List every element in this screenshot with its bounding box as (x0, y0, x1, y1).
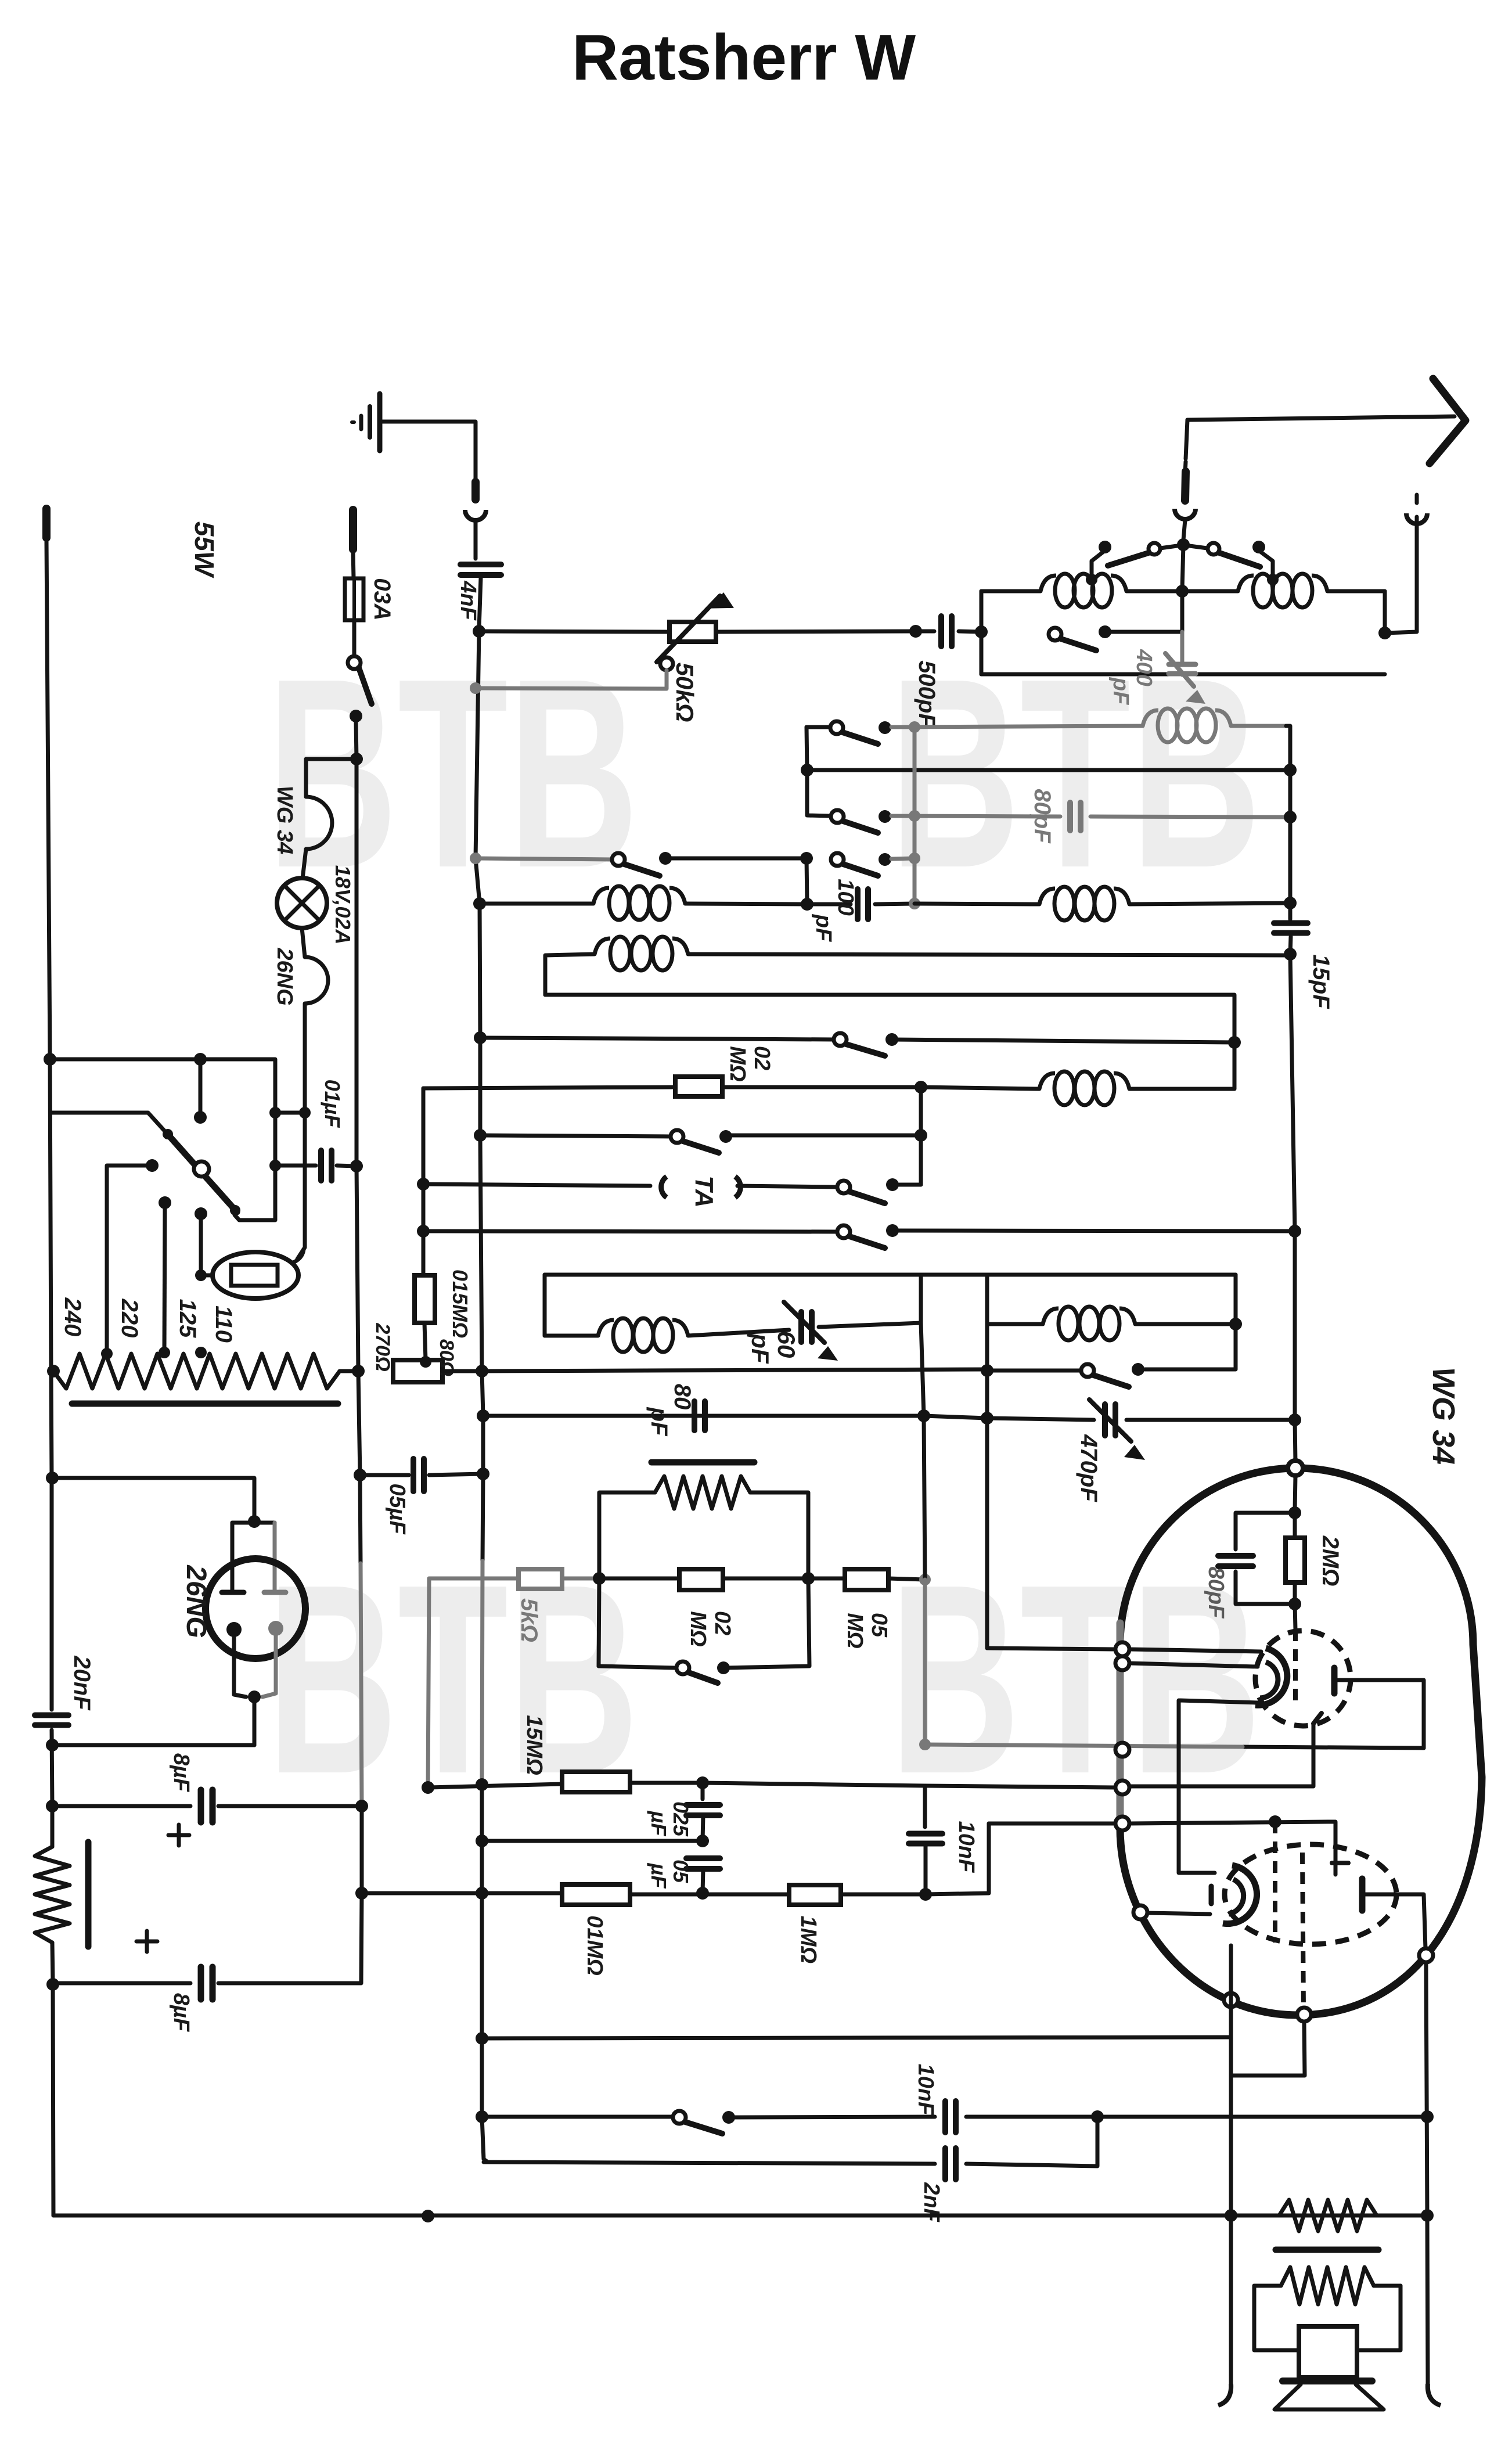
row y1790 left (480, 1038, 834, 1040)
column x2119 lower (1229, 2215, 1233, 2384)
junction bus y3170 (476, 1835, 488, 1847)
wire x1210 lower (703, 1869, 703, 1893)
svg-text:240: 240 (60, 1297, 85, 1337)
bus lower segment (482, 1782, 488, 2162)
junction x1593 y2720 (919, 1574, 931, 1585)
row y1478 gray left (476, 858, 612, 859)
26NG right plate gray (264, 1590, 286, 1595)
wire 0.5uF to bus (429, 1474, 483, 1475)
upper system dashed circle (1255, 1631, 1351, 1726)
band switch left contact (1149, 543, 1160, 555)
row y2361 long (482, 1369, 987, 1371)
svg-text:WG 34: WG 34 (1426, 1367, 1461, 1465)
svg-text:05: 05 (867, 1613, 891, 1638)
wire y2120 right (892, 1231, 1295, 1231)
svg-text:55W: 55W (189, 521, 219, 578)
resistor 0.5M (845, 1569, 888, 1590)
box bottom wire (981, 672, 1385, 677)
capacitor 470pF (1102, 1404, 1108, 1436)
switch box bottom (599, 1666, 676, 1668)
junction grid y2762 (1288, 1598, 1301, 1610)
antenna2 hook (1406, 513, 1427, 524)
row y3140 inside (1129, 1822, 1329, 1823)
junction 26NG top (248, 1515, 261, 1528)
capacitor 8uF lower (198, 1967, 204, 1999)
gray column x1575 (913, 727, 917, 902)
wire 2M bottom (1293, 1582, 1297, 1604)
svg-text:18V,02A: 18V,02A (331, 865, 355, 945)
row y1252 switch (807, 725, 830, 729)
antenna plug pin (471, 482, 480, 499)
wire y1643 right (688, 954, 1290, 955)
wire coil y2280 left (987, 1322, 1043, 1326)
row y2195 (545, 1273, 1236, 1277)
rail left bottom (53, 1983, 53, 2215)
wire 0.1M to 1M (630, 1893, 789, 1897)
arrow 400pF (1165, 653, 1194, 686)
junction x620 y2540 (354, 1469, 366, 1481)
tube top cap pin (1288, 1461, 1303, 1476)
capacitor 80pF tube (1218, 1553, 1253, 1559)
gray row y1405 right (1090, 817, 1290, 817)
output transformer primary (1231, 2214, 1279, 2218)
mains switch (348, 656, 361, 669)
detector zigzag (655, 1476, 750, 1509)
wire 100pF to x1575 (875, 904, 915, 904)
switch y3645 (673, 2111, 686, 2124)
wire 26NG to y3005 (253, 1697, 257, 1745)
antenna pin (1185, 462, 1186, 473)
junction coil left top (1086, 574, 1097, 585)
svg-text:01MΩ: 01MΩ (582, 1915, 607, 1976)
gray 400pF lead (1180, 632, 1185, 662)
gray column x620 (360, 1475, 361, 1563)
wire coil to 60pF (688, 1330, 789, 1336)
column x938 (543, 1275, 547, 1336)
gray coil y1250 (1143, 710, 1158, 726)
column x2230 (1295, 1231, 1295, 1462)
speaker bar (1283, 2378, 1372, 2384)
wire 2M top (1293, 1513, 1297, 1538)
resistor 15M (562, 1772, 630, 1792)
junction grid y2605 (1288, 1506, 1301, 1519)
envelope pin y2864 (1115, 1656, 1129, 1670)
arrow 60pF (784, 1302, 825, 1343)
26NG left prong (231, 1523, 235, 1590)
wire y1556 mid (685, 904, 807, 904)
gray junction x1593 y3004 (919, 1739, 931, 1750)
junction center coils (1176, 585, 1189, 598)
junction bus y3510 (476, 2032, 488, 2045)
wire x938 to coil (545, 1334, 598, 1338)
selector post left (146, 1159, 159, 1172)
wire post to x2035 (1105, 630, 1182, 634)
svg-text:µF: µF (647, 1811, 671, 1837)
row y1643 coil (595, 938, 610, 954)
gray column x1593 (923, 1580, 927, 1745)
column x729 (422, 1088, 426, 1275)
switch in box y1088 (1049, 628, 1061, 641)
switch y1790 (834, 1033, 847, 1046)
wire y3645 right (966, 2115, 1427, 2119)
junction x623 y3110 (355, 1800, 368, 1812)
svg-text:pF: pF (747, 1333, 774, 1364)
bottom rail (53, 2214, 1427, 2218)
wire center down (1182, 545, 1183, 590)
capacitor 100pF (855, 889, 861, 919)
wire 8uF to x623 (218, 1804, 362, 1808)
junction x2458 y3645 (1421, 2110, 1434, 2123)
junction coil right top (1267, 574, 1279, 585)
row y1713 (545, 995, 1234, 1042)
wire 470pF to bus (1126, 1418, 1295, 1422)
column x1700 (985, 1275, 989, 1648)
wire coil right to corner (1327, 591, 1385, 631)
junction rail y2361 (47, 1365, 60, 1377)
svg-text:025: 025 (669, 1801, 693, 1837)
column x614 (357, 759, 358, 1371)
row y2445 (481, 1472, 485, 1476)
svg-text:05: 05 (669, 1859, 693, 1883)
wire 0.5M to x1593 (888, 1578, 925, 1580)
26NG cathode left (226, 1622, 242, 1637)
envelope pin y2840 (1115, 1642, 1129, 1656)
svg-text:10nF: 10nF (913, 2064, 938, 2116)
grid lead to system (1295, 1604, 1295, 1630)
coil y2280 (1043, 1308, 1059, 1324)
wire y1643 left corner (545, 954, 595, 995)
plus sign lower (136, 1940, 157, 1944)
junction x2222 y1326 (1284, 764, 1297, 776)
junction x2230 y2120 (1288, 1225, 1301, 1238)
svg-text:BTB: BTB (267, 622, 639, 924)
junction bus y1087 (473, 625, 485, 638)
junction rail y1824 (44, 1053, 56, 1066)
26NG top bar (232, 1521, 275, 1525)
junction rail y3415 (46, 1978, 59, 1991)
svg-text:50kΩ: 50kΩ (671, 663, 699, 722)
junction bus y1787 (474, 1031, 487, 1044)
capacitor 0.1uF (318, 1150, 324, 1181)
field coil zigzag (35, 1847, 70, 1943)
row y3110 8uF (52, 1804, 190, 1808)
junction x1890 y3645 (1091, 2110, 1104, 2123)
resistor 270 ohm (393, 1360, 442, 1382)
junction x1210 y3260 (696, 1887, 709, 1900)
svg-text:4nF: 4nF (456, 580, 480, 621)
gray stub y1478 (891, 858, 915, 859)
gray row y2718 (429, 1577, 519, 1581)
svg-text:500pF: 500pF (914, 660, 939, 728)
svg-text:80pF: 80pF (1029, 789, 1055, 844)
upper grid dashed (1293, 1630, 1298, 1700)
capacitor 80pF top (1067, 803, 1073, 830)
selector post bottom (195, 1207, 207, 1220)
svg-text:2MΩ: 2MΩ (1317, 1535, 1343, 1587)
transformer taps dots (101, 1348, 113, 1359)
wire ground to antenna lead (382, 422, 476, 481)
column x1210 upper (701, 1783, 705, 1799)
lower anode lead (1362, 1894, 1425, 1949)
row y3070 left (428, 1784, 562, 1787)
svg-text:8µF: 8µF (169, 1993, 193, 2033)
svg-text:µF: µF (647, 1863, 671, 1889)
row y2442 mid (924, 1416, 987, 1418)
junction grid1 y3137 (1269, 1815, 1281, 1828)
rail left below field (52, 1943, 53, 1983)
wire box left top (981, 589, 1041, 594)
row y1404 switch (807, 815, 830, 816)
svg-text:8µF: 8µF (169, 1753, 193, 1793)
wire to 500pF (916, 630, 934, 634)
pot wiper circle (660, 657, 673, 670)
wire TA to switch (737, 1186, 837, 1187)
row y1326 (807, 768, 1290, 772)
junction x729 y2039 (417, 1178, 430, 1190)
gray wire coil to corner (1231, 724, 1286, 728)
junction x623 y3260 (355, 1887, 368, 1900)
column x2262 screen (1129, 1724, 1313, 1786)
column x617 lower (358, 1371, 360, 1475)
svg-text:01µF: 01µF (321, 1080, 344, 1128)
wire 0.2M to x1392 (723, 1577, 808, 1581)
resistor 1M (789, 1885, 841, 1905)
wire pin to fuse (353, 551, 354, 578)
anode row y3010 (1243, 1747, 1424, 1748)
plus sign upper (168, 1833, 189, 1837)
lower cathode arc inner (1229, 1879, 1244, 1914)
wire y2545 (52, 1478, 254, 1518)
antenna arrowhead (1430, 379, 1466, 463)
speaker body (1299, 2326, 1357, 2378)
lower cathode tick (1209, 1886, 1214, 1904)
wire y3070 to x1593 (703, 1783, 925, 1786)
junction x1591 y2438 (917, 1409, 930, 1422)
column x2119 (1229, 1993, 1233, 2215)
junction x1210 y3170 (696, 1835, 709, 1847)
junction bus y1955 (474, 1129, 487, 1142)
svg-text:05µF: 05µF (385, 1483, 409, 1535)
row y1955 (480, 1135, 671, 1136)
wire 0.15M to tap (424, 1323, 426, 1360)
wire to 100pF (807, 902, 851, 907)
left column x1389 bottom (807, 858, 807, 902)
junction bus y3645 (476, 2110, 488, 2123)
transformer core bar (72, 1401, 338, 1407)
row y1824 (50, 1059, 275, 1113)
svg-text:220: 220 (117, 1299, 142, 1338)
svg-text:TA: TA (690, 1175, 718, 1207)
capacitor 10nF vert (909, 1831, 942, 1837)
resistor 0.1M (562, 1884, 630, 1905)
svg-text:20nF: 20nF (69, 1655, 95, 1711)
junction x2222 y1407 (1284, 811, 1297, 823)
svg-text:pF: pF (646, 1407, 672, 1437)
junction x2458 bottom (1421, 2209, 1434, 2222)
wire 500pF to box (959, 631, 981, 632)
gray junction x1575 y1478 (909, 853, 920, 864)
junction x1594 y3262 (919, 1888, 932, 1901)
bus wire main vertical (476, 631, 483, 1561)
junction bus y3073 (476, 1778, 488, 1791)
envelope pin anode (1419, 1948, 1433, 1962)
wire y2445 to cap (987, 1418, 1094, 1420)
junction tap 270 (420, 1356, 431, 1368)
resistor 2M vertical (1286, 1538, 1305, 1582)
upper anode bar (1331, 1668, 1338, 1693)
junction x737 bottom (422, 2210, 434, 2222)
svg-text:5kΩ: 5kΩ (516, 1598, 542, 1642)
row y2007 cap lead (275, 1164, 316, 1168)
wire y1088 left (479, 631, 668, 632)
row y3415 8uF2 (53, 1981, 190, 1986)
svg-text:125: 125 (175, 1299, 200, 1338)
lower system dashed ellipse (1225, 1844, 1396, 1944)
pot arrow (657, 596, 720, 662)
junction x1586 y1955 (915, 1129, 927, 1142)
capacitor 400pF variable (1169, 662, 1196, 667)
step wire pins (1232, 2022, 1305, 2076)
junction link node (299, 1107, 311, 1118)
lower cathode arc outer (1223, 1865, 1257, 1924)
wire 4nF to bus (479, 578, 481, 629)
wire lamp to bump2 (302, 928, 305, 957)
potentiometer 50k body (669, 622, 716, 642)
junction x617 y2361 (352, 1365, 365, 1377)
switch y2042 (837, 1181, 850, 1193)
wire corner x2222 top (1286, 726, 1290, 770)
capacitor 500pF (938, 616, 944, 646)
heater row y2840 inside (1129, 1649, 1261, 1652)
svg-text:WG 34: WG 34 (272, 786, 297, 854)
bus gray segment (482, 1561, 483, 1782)
junction x1392 y2718 (802, 1572, 815, 1585)
gray wire 5k to box (562, 1577, 599, 1581)
selector lever (166, 1132, 237, 1212)
mains plug pin left (42, 509, 51, 538)
capacitor 8uF upper (198, 1790, 204, 1822)
wire y1088 mid (716, 631, 916, 632)
wire 270 to bus (442, 1369, 482, 1373)
wire y1790 right (892, 1040, 1234, 1042)
gray junction x1575 y1405 (909, 810, 920, 822)
lead pin bottom1 (1229, 1945, 1233, 1993)
rail left vertical (50, 1059, 52, 1710)
envelope pin y3140 (1115, 1817, 1129, 1830)
secondary left drop (1254, 2286, 1299, 2350)
junction bus y2438 (477, 1409, 489, 1422)
wire switch to lamp node (356, 722, 357, 759)
secondary right drop (1357, 2286, 1401, 2350)
output transformer secondary (1254, 2284, 1281, 2288)
junction x1690 (975, 625, 988, 638)
svg-text:100: 100 (833, 879, 858, 915)
switch y2120 (837, 1225, 850, 1238)
junction x2222 y1643 (1284, 948, 1297, 961)
row y1916 lever feed (52, 1113, 165, 1131)
junction selector top (194, 1053, 207, 1066)
wire zigzag left (599, 1492, 655, 1578)
RF coil row3 left (593, 888, 609, 904)
heater row y2838 (987, 1648, 1115, 1649)
ground symbol (352, 394, 380, 451)
capacitor 60pF (798, 1312, 804, 1342)
wire 10nF to row (924, 1844, 928, 1894)
mains plug pin fuse (349, 510, 357, 549)
switch y1478 right (831, 853, 844, 866)
svg-text:MΩ: MΩ (725, 1046, 750, 1081)
selector oval plug (213, 1252, 298, 1299)
svg-text:MΩ: MΩ (843, 1613, 867, 1648)
column x2222 lower (1290, 954, 1295, 1231)
coil y2300 (598, 1320, 614, 1336)
fuse 0.3A body (345, 578, 363, 620)
envelope pin bottom2 (1297, 2008, 1311, 2022)
grid lead upper (1295, 1476, 1295, 1510)
envelope pin y3078 (1115, 1781, 1129, 1794)
field coil bar (85, 1842, 92, 1947)
gray row y1250 to coil (891, 726, 1143, 727)
capacitor 10nF row (942, 2101, 948, 2132)
row y3170 (482, 1839, 703, 1843)
hook left speaker (1218, 2384, 1231, 2405)
junction band switch center (1177, 538, 1190, 551)
oval left lead (201, 1274, 213, 1278)
switch y1955 (671, 1130, 683, 1143)
detector bar (651, 1459, 754, 1466)
junction x2126 y1795 (1228, 1036, 1241, 1049)
svg-text:26NG: 26NG (272, 947, 297, 1005)
svg-text:pF: pF (1108, 677, 1133, 706)
junction bus y3260 (476, 1887, 488, 1900)
junction lamp node (350, 753, 363, 765)
wire 8uF2 to x623 (218, 1893, 362, 1983)
box left vertical (980, 591, 984, 674)
row y3005 (52, 1743, 254, 1747)
junction bus y1556 (473, 897, 486, 910)
wire y3645 mid (729, 2117, 935, 2117)
dial lamp 18V 0.2A (277, 878, 327, 928)
antenna arrow line (1187, 416, 1455, 420)
antenna pin thick (1185, 472, 1186, 501)
envelope pin y3015 (1115, 1743, 1129, 1757)
junction x2230 y2445 (1288, 1413, 1301, 1426)
gray row y1405 left (891, 816, 1060, 817)
row y2120 (423, 1231, 837, 1232)
junction rail y2545 (46, 1472, 59, 1484)
left column x1389 upper (807, 727, 807, 770)
gray wire pot return (476, 670, 667, 689)
svg-text:15MΩ: 15MΩ (522, 1715, 546, 1775)
column x1703 (926, 1823, 989, 1894)
RF coil row3 right (1039, 889, 1055, 904)
wire hook to switch node (1183, 520, 1185, 540)
rail left below 20nF (52, 1730, 52, 1847)
column x474 (235, 1113, 275, 1220)
column x1589 (921, 1275, 925, 1580)
arrow 470pF (1089, 1400, 1131, 1441)
wire 0.1uF to x614 (337, 1166, 357, 1166)
row y2438 (483, 1414, 924, 1418)
row y2042 left (423, 1184, 650, 1186)
wire y1557 to x2222 (1129, 903, 1290, 904)
junction x474 y1916 (269, 1107, 281, 1118)
hook right speaker (1428, 2384, 1441, 2405)
wire y1556 right (915, 904, 1039, 904)
svg-text:03A: 03A (369, 578, 395, 620)
column x623 (360, 1806, 364, 1893)
junction rail y3005 (46, 1739, 59, 1751)
